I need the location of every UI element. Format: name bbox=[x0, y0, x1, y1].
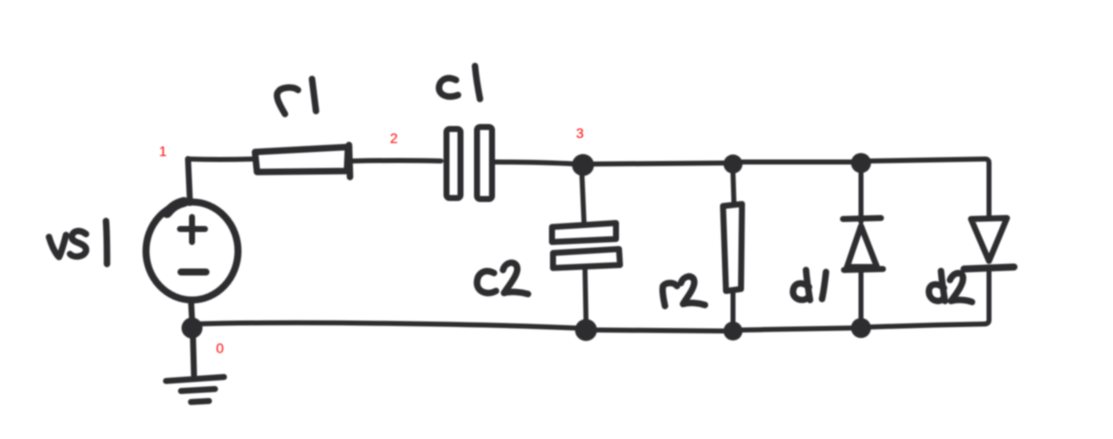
wire c1 to node 3 bbox=[495, 162, 575, 164]
wire bottom rail r2 to d1 bbox=[742, 328, 852, 330]
label d2 bbox=[929, 271, 972, 302]
junction d1 top bbox=[851, 153, 871, 173]
svg-text:0: 0 bbox=[216, 340, 224, 356]
junction r2 top bbox=[724, 155, 743, 174]
wire c2 to bottom rail bbox=[585, 269, 586, 320]
diode d2 bbox=[964, 218, 1014, 269]
capacitor c1 bbox=[447, 127, 493, 199]
wire bottom rail node 0 to c2 bbox=[194, 323, 575, 328]
node 3 junction bbox=[572, 154, 594, 176]
diode d1 bbox=[843, 218, 883, 270]
wire node 1 to r1 bbox=[188, 157, 253, 163]
wire d2 to bottom rail bbox=[984, 272, 989, 324]
capacitor c2 bbox=[552, 223, 620, 268]
label vs1 bbox=[49, 221, 107, 264]
wire d1 top dot to bar bbox=[859, 173, 864, 222]
label d1 bbox=[793, 270, 826, 300]
label c1 bbox=[439, 66, 480, 99]
junction r2 bottom bbox=[724, 322, 743, 341]
svg-text:3: 3 bbox=[576, 125, 584, 141]
junction node 0 bbox=[182, 318, 203, 339]
wire d1 to bottom dot bbox=[859, 272, 864, 318]
wire r1 to c1 bbox=[352, 158, 441, 164]
label c2 bbox=[477, 263, 528, 294]
wire d1 top to d2 top corner bbox=[870, 159, 989, 218]
svg-text:1: 1 bbox=[159, 143, 167, 159]
wire r2 box to bottom dot bbox=[731, 290, 736, 322]
label r2 bbox=[663, 276, 705, 306]
wire r2 top to d1 top bbox=[742, 160, 852, 165]
voltage source vs1 bbox=[146, 202, 238, 300]
label r1 bbox=[277, 79, 316, 114]
wire bottom rail c2 to r2 bbox=[597, 330, 724, 331]
junction c2 bottom bbox=[575, 319, 597, 341]
resistor r2 bbox=[723, 204, 742, 291]
wire vs1 top to node 1 corner bbox=[188, 159, 190, 203]
ground bbox=[166, 377, 224, 402]
wire bottom rail d1 to d2 bbox=[870, 324, 984, 327]
junction d1 bottom bbox=[851, 318, 871, 338]
wire vs1 bottom to node 0 bbox=[191, 300, 192, 319]
wire node 3 down to c2 bbox=[582, 176, 584, 222]
wire node 0 to ground bbox=[193, 338, 194, 375]
wire r2 top dot to box bbox=[733, 173, 734, 205]
svg-text:2: 2 bbox=[390, 130, 398, 146]
wire node 3 to r2 top bbox=[594, 163, 724, 164]
resistor r1 bbox=[255, 145, 350, 177]
